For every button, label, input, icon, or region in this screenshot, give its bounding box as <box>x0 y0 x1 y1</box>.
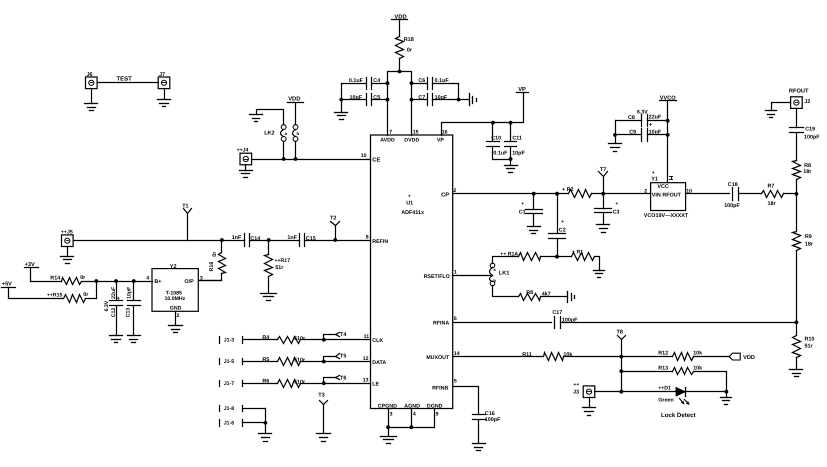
svg-text:b: b <box>493 278 496 283</box>
resistor R8 18r (output) <box>793 161 813 194</box>
svg-text:5: 5 <box>454 378 457 384</box>
wire <box>243 383 278 385</box>
wire CE net <box>252 159 371 161</box>
svg-text:16: 16 <box>442 130 448 136</box>
svg-text:VDD: VDD <box>743 355 755 361</box>
ground <box>583 408 596 416</box>
svg-text:R6: R6 <box>262 379 269 385</box>
VCO Y1 VCO19V-XXXXT <box>644 170 692 219</box>
ground <box>259 434 272 442</box>
svg-text:1nF: 1nF <box>232 235 242 241</box>
wire <box>8 288 10 299</box>
capacitor C9 10nF <box>616 129 668 142</box>
svg-text:U1: U1 <box>406 200 413 206</box>
capacitor C16 100pF <box>453 387 502 444</box>
svg-text:0r: 0r <box>80 275 86 281</box>
svg-text:RFINB: RFINB <box>432 386 448 392</box>
resistor R8 4k7 <box>519 290 567 300</box>
connector J1-7 <box>220 381 243 387</box>
svg-text:++R15: ++R15 <box>47 292 63 298</box>
wire <box>283 142 285 160</box>
wire <box>265 409 267 434</box>
ground <box>240 171 253 178</box>
svg-text:0r: 0r <box>83 292 89 298</box>
svg-text:++D1: ++D1 <box>658 385 671 391</box>
ground <box>721 398 732 405</box>
svg-text:CP: CP <box>441 191 449 198</box>
power +5V <box>2 282 16 288</box>
capacitor C13 10pF <box>125 282 140 336</box>
resistor R13 10k <box>622 366 727 392</box>
connector J7 <box>158 72 170 89</box>
svg-text:GND: GND <box>170 306 182 312</box>
test point T6 <box>322 375 347 385</box>
test point T7 <box>599 167 608 194</box>
connector J1-8 <box>220 406 266 412</box>
svg-text:+: + <box>408 194 411 200</box>
svg-text:+: + <box>561 219 564 225</box>
capacitor C4 0.1uF <box>342 78 388 90</box>
svg-text:R9: R9 <box>805 234 812 240</box>
ground <box>790 370 803 377</box>
capacitor C19 100pF <box>790 126 821 160</box>
svg-text:R10: R10 <box>805 336 815 342</box>
capacitor C17 100pF <box>552 310 578 329</box>
ground <box>85 104 98 111</box>
svg-text:VCO19V—XXXXT: VCO19V—XXXXT <box>644 213 689 219</box>
svg-text:ADF411x: ADF411x <box>401 210 424 216</box>
svg-text:R7: R7 <box>768 184 775 190</box>
power VDD (LK2) <box>288 97 304 125</box>
svg-text:++R17: ++R17 <box>275 258 291 264</box>
wire <box>493 286 519 297</box>
ground (LK2) <box>250 110 284 125</box>
svg-text:Green: Green <box>658 397 674 403</box>
svg-text:MUXOUT: MUXOUT <box>426 355 450 361</box>
power VDD <box>392 14 408 20</box>
svg-text:T6: T6 <box>340 375 346 381</box>
wire <box>615 121 617 144</box>
svg-text:10: 10 <box>361 153 367 159</box>
svg-text:B+: B+ <box>154 279 161 285</box>
wire VVCO net <box>667 101 669 183</box>
svg-text:C9: C9 <box>629 130 636 136</box>
svg-text:CLK: CLK <box>372 338 383 344</box>
wire <box>589 398 591 408</box>
resistor R12 10k <box>658 350 729 360</box>
ground <box>158 100 171 107</box>
svg-text:100pF: 100pF <box>804 135 820 141</box>
wire <box>458 84 460 100</box>
svg-text:10k: 10k <box>563 352 572 358</box>
svg-text:VP: VP <box>437 137 445 143</box>
svg-text:+: + <box>521 201 524 207</box>
svg-text:RFOUT: RFOUT <box>662 193 681 199</box>
svg-text:C7: C7 <box>418 95 425 101</box>
svg-text:C1: C1 <box>519 209 526 215</box>
test point T2 <box>330 215 340 240</box>
svg-text:51r: 51r <box>805 344 814 350</box>
svg-text:15: 15 <box>413 130 419 136</box>
svg-text:T5: T5 <box>340 354 346 360</box>
svg-text:4: 4 <box>413 412 416 418</box>
svg-text:C11: C11 <box>512 135 522 141</box>
svg-text:C17: C17 <box>552 310 562 316</box>
svg-text:J1-6: J1-6 <box>224 421 234 427</box>
svg-text:RFINA: RFINA <box>433 321 449 327</box>
ground <box>528 227 541 234</box>
power VVCO <box>660 95 677 101</box>
svg-text:C19: C19 <box>805 126 815 132</box>
svg-text:0.1uF: 0.1uF <box>493 151 508 157</box>
resistor R2 <box>562 187 592 197</box>
svg-text:C6: C6 <box>418 78 425 84</box>
svg-text:13: 13 <box>363 378 369 384</box>
wire <box>595 391 677 393</box>
wire <box>164 89 166 100</box>
wire CPGND AGND DGND <box>388 409 390 428</box>
capacitor C1 <box>519 194 543 227</box>
svg-text:J1-8: J1-8 <box>224 406 234 412</box>
svg-text:6.3V: 6.3V <box>104 300 110 311</box>
svg-text:C16: C16 <box>485 411 495 417</box>
connector J1-6 <box>220 420 266 427</box>
wire MUXOUT net <box>453 356 544 358</box>
wire <box>91 89 93 104</box>
wire RFINA net <box>453 322 552 324</box>
resistor R15 0r <box>47 282 97 303</box>
ground <box>61 257 74 264</box>
capacitor C12 22uF 6.3V <box>104 282 122 336</box>
capacitor C11 10pF <box>505 123 526 166</box>
svg-text:Lock Detect: Lock Detect <box>661 412 696 419</box>
svg-text:J2: J2 <box>804 99 810 105</box>
connector J4 <box>237 148 252 165</box>
svg-text:6: 6 <box>454 316 457 322</box>
connector J1-5 <box>220 359 243 366</box>
svg-text:R18: R18 <box>404 37 414 43</box>
svg-text:18r: 18r <box>803 169 812 175</box>
resistor R11 10k <box>522 352 572 360</box>
svg-text:RSET/FLO: RSET/FLO <box>424 274 450 280</box>
wire <box>199 280 222 282</box>
svg-text:+: + <box>615 201 618 207</box>
wire <box>621 357 623 392</box>
test point T5 <box>322 354 347 364</box>
jumper LK2 <box>264 125 299 142</box>
wire <box>592 193 651 195</box>
test point T3 <box>318 392 327 433</box>
wire AVDD branch pin 7 <box>388 72 412 136</box>
ground <box>110 336 123 343</box>
wire <box>686 193 730 195</box>
svg-text:18r: 18r <box>768 201 777 207</box>
ground (sideways) <box>470 94 477 106</box>
ground <box>505 166 518 173</box>
power tag VDD <box>729 353 755 361</box>
connector J1-3 <box>220 337 243 344</box>
wire <box>67 247 69 257</box>
svg-text:10k: 10k <box>693 366 702 372</box>
wire <box>30 268 32 282</box>
svg-text:510r: 510r <box>294 379 306 385</box>
wire <box>493 257 519 264</box>
svg-text:R8: R8 <box>804 163 811 169</box>
resistor R4 510r <box>262 335 306 343</box>
capacitor C10 0.1uF <box>487 123 511 160</box>
svg-text:R13: R13 <box>658 366 668 372</box>
capacitor C8 22uF 6.3V <box>616 109 668 128</box>
svg-text:AGND: AGND <box>404 404 420 410</box>
svg-text:10.0MHz: 10.0MHz <box>165 296 186 302</box>
svg-text:3: 3 <box>390 412 393 418</box>
wire VP net pin 16 <box>442 93 524 136</box>
ground <box>317 434 331 442</box>
capacitor C7 10pF <box>412 94 459 106</box>
ground <box>128 336 141 343</box>
svg-text:R4: R4 <box>262 335 269 341</box>
svg-text:0r: 0r <box>407 47 413 53</box>
wire REFIN net <box>74 240 245 242</box>
svg-text:AVDD: AVDD <box>380 137 395 143</box>
capacitor C15 1nF <box>287 234 315 247</box>
resistor R14 0r <box>50 275 152 284</box>
svg-text:T3: T3 <box>318 392 324 398</box>
svg-text:b: b <box>297 131 300 136</box>
svg-text:8: 8 <box>366 235 369 241</box>
svg-text:C3: C3 <box>613 209 620 215</box>
resistor R1A <box>500 251 559 260</box>
svg-text:7: 7 <box>389 130 392 136</box>
svg-text:6.3V: 6.3V <box>637 109 648 115</box>
resistor R18 0r <box>396 37 414 59</box>
wire <box>305 240 371 242</box>
svg-text:T2: T2 <box>330 215 336 221</box>
ground <box>597 225 610 233</box>
svg-text:J1-5: J1-5 <box>224 359 234 365</box>
svg-text:10pF: 10pF <box>512 151 525 157</box>
wire <box>243 339 278 341</box>
svg-text:REFIN: REFIN <box>372 239 388 245</box>
svg-text:DATA: DATA <box>372 360 386 366</box>
svg-text:O/P: O/P <box>184 279 194 285</box>
ground <box>594 271 605 278</box>
svg-text:C8: C8 <box>628 115 635 121</box>
wire <box>796 109 798 128</box>
capacitor C6 0.1uF <box>412 78 459 90</box>
svg-text:10k: 10k <box>693 350 702 356</box>
LED D1 Green Lock Detect <box>658 385 695 419</box>
svg-text:9: 9 <box>436 412 439 418</box>
test point T8 <box>617 330 626 357</box>
svg-text:CE: CE <box>372 157 380 164</box>
ground <box>381 437 397 444</box>
svg-text:4: 4 <box>146 276 149 282</box>
ground <box>766 111 777 118</box>
svg-text:CPGND: CPGND <box>378 404 397 410</box>
connector J6 <box>86 72 98 89</box>
svg-text:J1-7: J1-7 <box>224 381 234 387</box>
svg-text:18r: 18r <box>805 242 814 248</box>
svg-text:VCC: VCC <box>657 184 668 190</box>
svg-text:1: 1 <box>454 269 457 275</box>
power +3V <box>25 262 39 268</box>
svg-text:T4: T4 <box>340 332 347 338</box>
wire <box>245 165 247 171</box>
ground <box>261 294 277 301</box>
svg-text:VIN: VIN <box>652 193 661 199</box>
ground <box>169 326 183 333</box>
wire <box>399 59 401 72</box>
svg-text:R11: R11 <box>522 352 532 358</box>
wire <box>301 383 371 385</box>
resistor R9 18r <box>793 194 814 325</box>
svg-text:2: 2 <box>177 313 180 319</box>
svg-text:RFOUT: RFOUT <box>789 88 809 94</box>
power VP <box>517 87 529 93</box>
wire CP net <box>453 193 569 195</box>
svg-text:C10: C10 <box>491 135 501 141</box>
connector J5 <box>61 230 73 247</box>
svg-text:T7: T7 <box>600 167 606 173</box>
svg-text:C2: C2 <box>559 228 566 234</box>
oscillator Y2 T-1085 10.0MHz <box>146 264 203 326</box>
test point T4 <box>322 332 347 342</box>
svg-text:10pF: 10pF <box>127 287 133 299</box>
svg-text:LK1: LK1 <box>499 271 509 277</box>
svg-text:51r: 51r <box>275 265 284 271</box>
capacitor C14 1nF <box>232 234 261 247</box>
svg-text:R14: R14 <box>50 276 60 282</box>
svg-text:++ R1A: ++ R1A <box>500 251 518 257</box>
wire <box>301 361 371 363</box>
resistor R5 510r <box>262 357 306 366</box>
wire RSET/FLO <box>453 275 491 277</box>
svg-text:LK2: LK2 <box>264 130 274 136</box>
resistor R17 51r <box>265 241 291 294</box>
wire <box>341 84 343 113</box>
svg-text:Y1: Y1 <box>651 177 658 183</box>
resistor R16 0r <box>199 241 226 281</box>
svg-text:510r: 510r <box>294 358 306 364</box>
resistor R10 51r <box>793 323 815 370</box>
ground <box>609 144 622 152</box>
wire <box>243 361 278 363</box>
wire <box>301 339 371 341</box>
svg-text:LE: LE <box>372 382 379 388</box>
ground (sideways) <box>568 292 575 303</box>
svg-text:2: 2 <box>644 189 647 195</box>
resistor R7 18r <box>762 184 799 208</box>
svg-text:R12: R12 <box>658 350 668 356</box>
wire <box>561 322 797 324</box>
resistor R1 <box>558 249 600 270</box>
connector J3 <box>573 382 595 398</box>
ground <box>335 113 348 120</box>
wire <box>399 20 401 37</box>
resistor R6 510r <box>262 379 306 388</box>
jumper LK1 <box>490 263 510 286</box>
svg-text:0r: 0r <box>212 251 218 257</box>
connector J2 RFOUT <box>789 88 810 108</box>
svg-text:TEST: TEST <box>117 76 133 83</box>
svg-text:J3: J3 <box>573 390 579 396</box>
ground <box>473 444 486 451</box>
svg-text:100pF: 100pF <box>485 417 501 423</box>
wire <box>772 103 791 111</box>
wire TEST net <box>98 76 159 83</box>
wire <box>686 391 727 393</box>
svg-text:+5V: +5V <box>2 282 12 288</box>
IC U1 ADF411x <box>361 130 460 418</box>
svg-text:100pF: 100pF <box>724 203 740 209</box>
svg-text:++: ++ <box>573 382 579 388</box>
svg-text:22uF: 22uF <box>649 115 662 121</box>
capacitor C3 <box>595 194 620 225</box>
svg-text:J1-3: J1-3 <box>224 337 234 343</box>
svg-text:1nF: 1nF <box>287 235 297 241</box>
capacitor C18 100pF <box>724 182 761 209</box>
svg-text:R16: R16 <box>209 262 215 272</box>
svg-text:+: + <box>652 170 655 176</box>
svg-text:DVDD: DVDD <box>404 137 419 143</box>
svg-text:Y2: Y2 <box>170 264 177 270</box>
wire <box>250 240 300 242</box>
svg-text:R5: R5 <box>262 357 269 363</box>
svg-text:VDD: VDD <box>288 97 300 103</box>
wire <box>564 356 673 358</box>
svg-text:C13: C13 <box>125 308 131 318</box>
test point T1 <box>182 203 191 240</box>
capacitor C2 <box>549 194 566 257</box>
capacitor C5 10pF <box>342 94 388 106</box>
